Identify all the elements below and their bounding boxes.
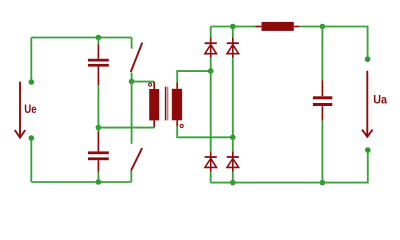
diode D1 [205,37,217,58]
inductor L1 right pin [294,26,299,28]
wire D1 to AC node [210,58,212,71]
node output terminal bottom [365,147,371,153]
wire input bottom rail [31,181,131,183]
wire switch S2 bottom stub [130,171,132,182]
wire cap midpoint to primary bottom [98,127,154,129]
wire bridge right leg top [232,27,234,38]
node top rail / C1 [96,35,102,41]
wire secondary top to bridge [177,71,211,82]
node bottom rail / C2 [96,179,102,185]
output arrow Ua [363,72,373,137]
transformer T1 primary bottom pin [153,120,155,127]
wire output top rail left [211,26,256,28]
transformer T1 secondary bottom pin [176,120,178,126]
wire switch midpoint to S2 [131,82,133,144]
node bridge AC right [230,135,236,141]
wire C1 bottom to midpoint [97,85,99,128]
transformer T1 secondary polarity dot [180,124,183,127]
node top rail / D2 [230,24,236,30]
wire bridge right leg middle [232,58,234,137]
node bottom rail / C3 [320,180,326,186]
node bottom rail / bridge [230,180,236,186]
node input terminal bottom [29,135,35,141]
wire L1 to C3 node [299,26,322,28]
wire C1 top stub [97,38,99,45]
wire input top rail [31,37,131,39]
wire output bottom rail [211,150,368,183]
node top rail / C3 [320,24,326,30]
node bridge AC left [208,68,214,74]
switch S2 arm [131,149,142,170]
capacitor C1 [88,45,109,86]
wire input left rail upper [30,38,32,83]
wire switch S1 bottom stub [131,73,133,82]
wire C2 bottom stub [97,172,99,182]
transformer T1 primary top pin [153,82,155,89]
node capacitor midpoint [96,125,102,131]
wire bridge left leg middle [210,71,212,151]
wire secondary bottom to bridge [177,126,233,137]
node output terminal top [365,56,371,62]
diode D3 [205,151,217,172]
capacitor C3 [313,81,332,121]
wire C3 top [321,27,323,81]
wire bridge left leg bottom [210,172,212,183]
node switch midpoint [129,79,135,85]
wire bridge right leg bottom [232,172,234,183]
wire AC node to D4 [232,137,234,151]
node input terminal top [29,79,35,85]
svg-text:Ua: Ua [373,92,387,106]
switch S1 arm [131,43,142,71]
capacitor C2 [88,132,109,172]
transformer T1 primary winding [149,89,159,120]
wire bridge left leg top [210,27,212,38]
wire C2 top stub [97,128,99,132]
source arrow Ue [15,83,25,138]
wire switch S1 top contact [131,38,133,49]
wire input left rail lower [30,138,32,182]
svg-text:Ue: Ue [24,102,36,116]
transformer T1 primary polarity dot [149,83,152,86]
wire node to primary top [132,81,154,83]
wire output top rail right [322,27,367,60]
wire C3 bottom [321,121,323,183]
transformer T1 secondary winding [172,89,182,121]
transformer T1 core [166,87,168,121]
transformer T1 secondary top pin [176,82,178,88]
inductor L1 [262,22,294,31]
diode D4 [227,151,239,172]
diode D2 [227,37,239,58]
inductor L1 left pin [255,26,261,28]
